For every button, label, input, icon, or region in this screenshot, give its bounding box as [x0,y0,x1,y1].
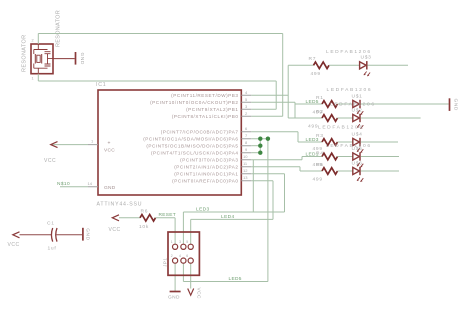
svg-text:VCC: VCC [109,227,121,233]
svg-text:(PCINT2/AIN1/ADC2)PA2: (PCINT2/AIN1/ADC2)PA2 [174,164,238,169]
svg-text:10: 10 [243,154,248,159]
supply symbol VCC at pin 1 [51,142,58,148]
junction at pin 8 bus [258,144,262,148]
connector JP1 body [168,232,199,275]
svg-text:LEDFAB1206: LEDFAB1206 [326,49,372,55]
svg-text:IC1: IC1 [96,82,106,88]
resistor R4 [322,153,338,160]
JP1 pad 6 [188,258,193,263]
wire XTAL1 top horizontal [38,33,282,35]
wire XTAL2 vertical down to pin 3 [275,81,277,109]
JP1 pad 1 [173,244,178,249]
svg-text:R1: R1 [316,95,324,101]
svg-text:(PCINT10/INT0/OC0A/CKOUT)PB2: (PCINT10/INT0/OC0A/CKOUT)PB2 [150,100,238,105]
svg-text:10k: 10k [139,224,149,230]
wire pin 13 horizontal [251,180,273,182]
svg-text:(PCINT11/RESET/DW)PB3: (PCINT11/RESET/DW)PB3 [171,93,238,98]
svg-text:LED5: LED5 [229,276,242,282]
wire C1 to ground [57,234,83,236]
svg-text:499: 499 [308,124,318,130]
wire pin 3 horizontal [251,108,276,110]
wire pin 2 horizontal [251,115,282,117]
svg-text:VCC: VCC [44,158,56,164]
wire pin 10 jog to row E [301,157,303,160]
svg-text:R5: R5 [316,162,324,168]
wire resonator to ground [53,58,75,60]
svg-text:1uf: 1uf [48,246,57,252]
wire pin 14 net N$10 [60,186,88,188]
svg-text:VCC: VCC [196,288,202,299]
resistor R1 [322,101,338,108]
svg-text:R3: R3 [316,133,324,139]
wire pin 11 horizontal [251,166,300,168]
supply symbol VCC below JP1 [188,289,194,296]
wire row D right [361,141,398,143]
svg-text:GND: GND [85,228,91,240]
LED U$5 [353,152,364,167]
resistor R6 [140,215,155,222]
LED U$6 [353,167,364,182]
row B: wire left [295,103,322,105]
svg-text:(PCINT3/T0/ADC3)PA3: (PCINT3/T0/ADC3)PA3 [180,157,238,162]
JP1 pad 3 [181,244,186,249]
svg-text:GND: GND [79,53,85,65]
wire net LED4 vertical right [272,181,274,220]
wire pin 4 horizontal [251,94,288,96]
wire row A left vertical [287,65,289,118]
wire VCC to pin 1 [51,144,88,146]
svg-text:(PCINT1/AIN0/ADC1)PA1: (PCINT1/AIN0/ADC1)PA1 [174,171,238,176]
svg-text:R4: R4 [316,151,324,157]
junction at pin 9 bus [258,151,262,155]
wire row B right to ground [361,103,449,105]
svg-text:GND: GND [453,99,459,111]
JP1 pad 4 [181,258,186,263]
svg-text:R7: R7 [309,56,317,62]
junction at pin 7 bus [258,137,262,141]
svg-text:LEDFAB1206: LEDFAB1206 [330,102,376,108]
svg-text:3: 3 [179,240,181,244]
svg-text:2: 2 [32,39,34,43]
supply symbol VCC at R6 [112,215,119,221]
svg-text:RESONATOR: RESONATOR [22,35,28,72]
wire JP1 pin2 to ground [174,261,176,291]
LED U$1 [353,100,364,115]
svg-text:R2: R2 [316,109,324,115]
LED U$4 [353,138,364,153]
resistor R5 [322,168,338,175]
svg-text:U$6: U$6 [352,161,363,167]
wire row D middle [338,141,353,143]
svg-text:4: 4 [179,254,181,258]
svg-text:(PCINT9/XTAL2)PB1: (PCINT9/XTAL2)PB1 [186,107,238,112]
row D: wire left [298,141,322,143]
svg-text:C1: C1 [47,221,55,227]
svg-text:U$3: U$3 [361,55,372,61]
svg-text:ATTINY44-SSU: ATTINY44-SSU [97,202,143,208]
svg-text:JP1: JP1 [163,258,169,267]
svg-text:LED4: LED4 [221,214,235,220]
svg-text:LEDFAB1206: LEDFAB1206 [327,87,373,93]
wire pin 10 horizontal [251,159,302,161]
svg-text:LEDFAB1206: LEDFAB1206 [318,125,364,131]
ground symbol below JP1 [170,291,181,293]
svg-text:(PCINT7/ICP/OC0B/ADC7)PA7: (PCINT7/ICP/OC0B/ADC7)PA7 [161,129,239,134]
wire net LED5 down from JP1 [182,261,184,282]
wire row C middle [338,117,353,119]
wire bus vertical pins 7-9 [259,139,261,153]
wire net LED4 down to JP1 [190,219,192,246]
capacitor C1 [51,228,57,242]
svg-text:1: 1 [32,77,34,81]
svg-text:1: 1 [171,240,173,244]
svg-text:12: 12 [243,168,248,173]
wire row C right [361,117,421,119]
IC1 ATTINY44-SSU body [98,90,241,195]
wire row A middle [329,64,360,66]
LED U$2 [353,114,364,129]
supply symbol VCC at C1 [13,232,20,238]
resistor R7 [314,62,330,69]
wire row E middle [338,156,353,158]
wire net RESET down to JP1 [174,218,176,247]
junction at pin 7 LED5 [266,137,270,141]
resistor R3 [322,139,338,146]
svg-text:U$2: U$2 [352,108,363,114]
wire net LED3 vertical from pin 10 [252,160,254,212]
svg-text:N$10: N$10 [57,181,70,187]
wire pin 6 horizontal [251,131,298,133]
svg-text:(PCINT6/OC1A/SDA/MOSI/ADC6)PA6: (PCINT6/OC1A/SDA/MOSI/ADC6)PA6 [143,136,238,141]
svg-text:R6: R6 [141,209,149,215]
svg-text:(PCINT5/OC1B/MISO/DO/ADC5)PA5: (PCINT5/OC1B/MISO/DO/ADC5)PA5 [146,143,238,148]
wire XTAL2 horizontal [38,80,276,82]
wire pin 11 jog to row F [299,167,301,171]
wire pin 6 vertical to row D [297,132,299,142]
svg-text:VCC: VCC [8,242,20,248]
wire net RESET horizontal [156,217,176,219]
ground symbol at resonator [75,52,77,65]
wire pin 9 horizontal [251,152,260,154]
wire row E right [361,156,399,158]
wire net LED5 vertical pin7 to bottom [267,139,269,282]
svg-text:U$1: U$1 [352,94,363,100]
svg-text:GND: GND [168,295,180,301]
svg-text:499: 499 [311,71,321,77]
wire pin 7 horizontal [251,138,268,140]
wire VCC to R6 [119,217,140,219]
IC1 pin stubs left side [88,145,98,187]
svg-text:RESET: RESET [159,212,177,218]
svg-text:14: 14 [88,181,93,186]
wire resonator pin1 down [37,74,39,81]
svg-text:(PCINT4/T1/SCL/USCK/ADC4)PA4: (PCINT4/T1/SCL/USCK/ADC4)PA4 [151,150,239,155]
wire row F right [361,170,399,172]
wire net LED4 horizontal [191,218,273,220]
svg-text:2: 2 [171,254,173,258]
ground symbol at C1 [82,228,84,241]
wire net LED3 horizontal [183,211,284,213]
resonator U$2 body [31,44,53,74]
JP1 pad 5 [188,244,193,249]
wire row F middle [338,170,353,172]
wire XTAL1 vertical down to pin 2 [282,34,284,117]
wire row B middle [338,103,353,105]
svg-text:13: 13 [243,175,248,180]
wire pin 5 horizontal [251,101,295,103]
LED U$3 [360,61,371,76]
wire JP1 pin6 to VCC [190,261,192,289]
row E: wire left [302,156,322,158]
svg-text:(PCINT0/AREF/ADC0)PA0: (PCINT0/AREF/ADC0)PA0 [172,178,238,183]
IC1 pin stubs right side [241,95,251,180]
wire net LED3 down to JP1 [182,212,184,247]
wire pin 5 vertical to rows B C [294,102,296,118]
resistor R2 [322,115,338,122]
wire row A right [368,64,409,66]
row C: wire left [288,117,322,119]
svg-text:(PCINT8/XTAL1/CLKI)PB0: (PCINT8/XTAL1/CLKI)PB0 [172,114,239,119]
wire net LED5 horizontal [183,281,268,283]
svg-text:+: + [108,141,111,147]
svg-text:U$4: U$4 [352,132,363,138]
wire resonator pin2 up [37,34,39,45]
svg-text:RESONATOR: RESONATOR [56,10,62,47]
wire pin 8 horizontal [251,145,260,147]
svg-text:LEDFAB1206: LEDFAB1206 [326,143,372,149]
svg-text:499: 499 [313,177,323,183]
svg-text:5: 5 [186,240,188,244]
wire net LED3 vertical right [284,174,286,212]
wire pin 12 horizontal [251,173,284,175]
ground symbol row B [449,98,451,111]
svg-text:6: 6 [186,254,188,258]
wire VCC to C1 [20,234,52,236]
svg-text:GND: GND [104,185,116,191]
row A: wire left [288,64,313,66]
svg-text:LED3: LED3 [196,207,210,213]
row F: wire left [300,170,322,172]
JP1 pad 2 [173,258,178,263]
svg-text:VCC: VCC [104,148,115,154]
